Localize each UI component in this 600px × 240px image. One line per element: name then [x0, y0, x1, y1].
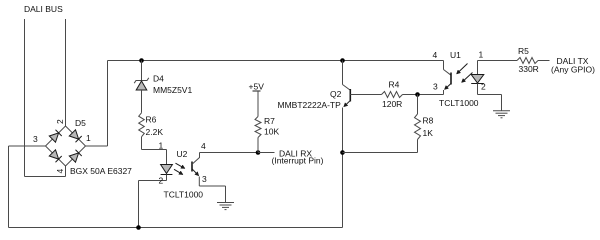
- svg-text:330R: 330R: [519, 64, 539, 74]
- svg-text:R7: R7: [264, 116, 275, 126]
- svg-text:(Any GPIO): (Any GPIO): [551, 65, 595, 75]
- svg-text:D5: D5: [75, 118, 86, 128]
- svg-text:10K: 10K: [264, 127, 279, 137]
- svg-text:(Interrupt Pin): (Interrupt Pin): [272, 156, 324, 166]
- svg-text:R5: R5: [518, 46, 529, 56]
- svg-text:Q2: Q2: [330, 89, 342, 99]
- svg-text:BGX 50A E6327: BGX 50A E6327: [70, 166, 132, 176]
- svg-text:1: 1: [479, 50, 484, 60]
- svg-text:120R: 120R: [382, 99, 402, 109]
- svg-text:MM5Z5V1: MM5Z5V1: [153, 85, 192, 95]
- svg-text:4: 4: [201, 141, 206, 151]
- svg-text:U1: U1: [450, 50, 461, 60]
- svg-text:TCLT1000: TCLT1000: [164, 190, 204, 200]
- svg-text:R4: R4: [389, 80, 400, 90]
- svg-text:TCLT1000: TCLT1000: [439, 98, 479, 108]
- svg-text:3: 3: [202, 174, 207, 184]
- svg-text:U2: U2: [177, 149, 188, 159]
- svg-text:R6: R6: [146, 115, 157, 125]
- svg-text:D4: D4: [153, 74, 164, 84]
- svg-text:1K: 1K: [423, 128, 434, 138]
- svg-text:2: 2: [159, 176, 164, 186]
- svg-text:2.2K: 2.2K: [146, 127, 164, 137]
- svg-text:+5V: +5V: [249, 82, 265, 92]
- svg-text:MMBT2222A-TP: MMBT2222A-TP: [278, 100, 342, 110]
- svg-text:3: 3: [33, 134, 38, 144]
- svg-text:2: 2: [481, 82, 486, 92]
- svg-text:4: 4: [433, 50, 438, 60]
- svg-text:1: 1: [159, 141, 164, 151]
- svg-text:1: 1: [86, 133, 91, 143]
- svg-text:R8: R8: [423, 116, 434, 126]
- svg-text:4: 4: [55, 169, 65, 174]
- svg-text:2: 2: [55, 119, 65, 124]
- svg-text:3: 3: [433, 82, 438, 92]
- svg-text:DALI BUS: DALI BUS: [24, 4, 63, 14]
